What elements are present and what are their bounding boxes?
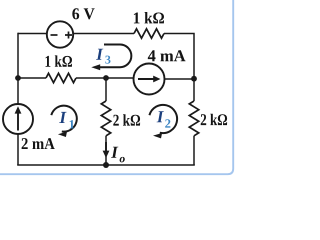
wire bottom <box>17 164 195 166</box>
label I2 <box>157 111 164 122</box>
voltage source V1 6V <box>47 21 73 47</box>
node junction dot C <box>191 76 197 82</box>
wire top-right corner down <box>164 34 194 79</box>
mesh arrow I2 <box>149 105 177 133</box>
resistor R top 1 kOhm zigzag <box>134 29 164 38</box>
wire right vertical upper <box>193 79 195 102</box>
node junction dot D <box>103 162 109 168</box>
wire middle horizontal left <box>18 77 46 79</box>
wire 4mA to right node <box>164 78 194 80</box>
resistor right 2 kOhm vertical zigzag <box>189 101 198 136</box>
label Io <box>111 147 118 158</box>
label 4 mA <box>148 50 186 61</box>
label 6 V <box>72 8 94 19</box>
minus sign <box>51 34 58 36</box>
resistor mid 1 kOhm zigzag <box>46 73 76 82</box>
wire top-right horizontal from source to resistor <box>73 33 134 35</box>
label 2 kOhm right <box>201 114 227 125</box>
current source 2 mA <box>3 104 33 134</box>
wire top-left horizontal <box>18 33 47 35</box>
label 1 kOhm top <box>134 12 164 23</box>
wire mid vertical lower <box>105 136 107 165</box>
wire right vertical lower <box>193 136 195 165</box>
resistor mid 2 kOhm vertical zigzag <box>101 101 110 136</box>
current arrow I3 <box>99 45 131 68</box>
current source 4 mA <box>134 64 165 95</box>
label I3 <box>96 49 103 60</box>
node junction dot A <box>15 75 21 81</box>
node junction dot B <box>103 75 109 81</box>
wire middle horizontal to 4mA <box>76 77 134 79</box>
current arrow Io <box>105 142 107 152</box>
label 2 kOhm mid <box>113 114 140 125</box>
label I1 <box>59 112 66 123</box>
wire left vertical lower <box>17 134 19 165</box>
label 1 kOhm mid <box>46 55 73 66</box>
plus sign <box>65 32 72 39</box>
mesh arrow I1 <box>51 106 77 132</box>
label 2 mA <box>22 138 55 149</box>
wire left vertical upper <box>17 33 19 104</box>
page border (light blue rounded corner, bottom-right) <box>0 0 233 174</box>
wire mid vertical upper <box>105 78 107 101</box>
